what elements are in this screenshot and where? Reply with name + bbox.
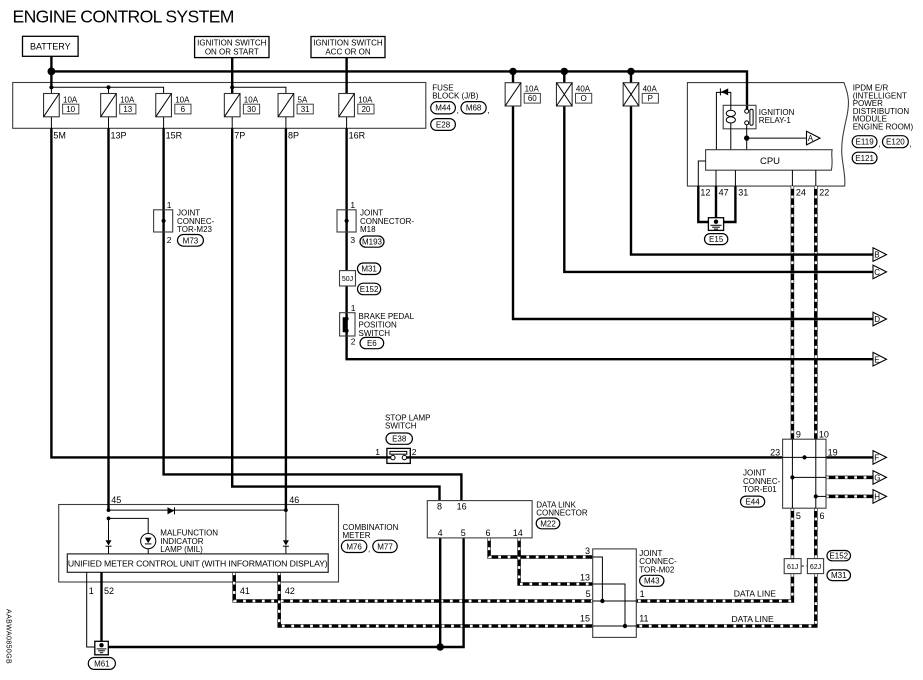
wire meter internal top rail — [109, 509, 286, 511]
svg-text:45: 45 — [111, 495, 121, 505]
wire E01 to arrow H (dashed) — [826, 495, 873, 499]
wire CPU pin 47 — [715, 170, 717, 186]
svg-text:10A: 10A — [175, 95, 190, 104]
svg-text:62J: 62J — [810, 564, 821, 571]
svg-text:M31: M31 — [361, 265, 377, 274]
svg-text:M22: M22 — [540, 519, 556, 528]
junction box 62J — [807, 559, 823, 574]
junction box 61J — [784, 559, 801, 574]
wire 8P column to combination meter pin 46 — [285, 128, 287, 510]
svg-text:F: F — [874, 454, 879, 463]
wire battery feed — [50, 56, 52, 87]
svg-text:UNIFIED METER CONTROL UNIT (WI: UNIFIED METER CONTROL UNIT (WITH INFORMA… — [68, 559, 328, 569]
svg-text:3: 3 — [585, 546, 590, 556]
svg-text:ENGINE CONTROL SYSTEM: ENGINE CONTROL SYSTEM — [13, 6, 234, 26]
wire E01 branch to H — [816, 495, 826, 497]
connector E28 label — [431, 119, 456, 131]
connector M61 label — [88, 658, 115, 670]
svg-text:1: 1 — [350, 200, 355, 210]
svg-text:61J: 61J — [787, 564, 798, 571]
off-page arrow A — [807, 131, 821, 145]
ground E15 — [708, 218, 723, 231]
wire 13P column to combination meter pin 45 — [107, 128, 109, 510]
wire M02 pin 3 to data line 1 — [593, 557, 603, 601]
node relay output junction — [744, 135, 749, 140]
svg-text:CPU: CPU — [760, 156, 780, 167]
wire meter pin 52 — [100, 572, 102, 644]
svg-text:D: D — [874, 315, 880, 324]
svg-text:SWITCH: SWITCH — [359, 329, 391, 338]
svg-text:E15: E15 — [709, 235, 724, 244]
node M02 junctions — [600, 599, 604, 603]
svg-text:10A: 10A — [525, 85, 540, 94]
svg-text:2: 2 — [167, 235, 172, 245]
off-page arrow C — [873, 265, 887, 279]
connector E15 label — [705, 234, 728, 245]
connector M31 label (lower) — [827, 570, 851, 581]
connector M22 label — [536, 518, 560, 529]
connector E6 label — [360, 337, 384, 348]
wire E01 pin 19 to arrow F — [826, 456, 873, 458]
wire 16R column through brake pedal switch to arrow E — [347, 128, 873, 359]
wire 15R column to DLC pin 16 — [164, 128, 462, 500]
connector E152 label (lower) — [827, 551, 851, 561]
svg-text:BATTERY: BATTERY — [30, 42, 71, 52]
fuse 10A #30 — [224, 94, 240, 117]
svg-text:1: 1 — [167, 200, 172, 210]
svg-text:13: 13 — [123, 105, 132, 114]
svg-text:M76: M76 — [346, 542, 362, 551]
svg-text:5A: 5A — [298, 95, 308, 104]
svg-text:H: H — [874, 493, 880, 502]
svg-text:ENGINE ROOM): ENGINE ROOM) — [853, 123, 914, 132]
svg-text:G: G — [874, 474, 880, 483]
fuse block (J/B) outline — [13, 83, 426, 129]
relay contact circles and blade — [745, 109, 749, 113]
svg-text:1: 1 — [640, 589, 645, 599]
off-page arrow B — [873, 248, 887, 262]
svg-text:,: , — [368, 544, 370, 553]
svg-text:A: A — [808, 134, 814, 143]
svg-text:40A: 40A — [643, 85, 658, 94]
wire CPU pin 12 — [698, 161, 705, 186]
wire meter pin 1 — [87, 572, 95, 647]
svg-text:52: 52 — [104, 586, 114, 596]
diode at pin 45 drop — [106, 540, 112, 545]
svg-text:DATA LINE: DATA LINE — [732, 614, 775, 624]
svg-text:M43: M43 — [644, 577, 660, 586]
svg-text:50J: 50J — [342, 276, 353, 283]
wire relay contact bottom to CPU — [746, 125, 748, 150]
ignition switch ON or START box — [195, 37, 269, 58]
wire CAN-H IPDM pin 24 to E01 pin 9 (dashed) — [791, 186, 795, 439]
svg-text:M73: M73 — [183, 236, 199, 245]
svg-text:40A: 40A — [576, 85, 591, 94]
svg-text:1: 1 — [375, 447, 380, 457]
svg-text:ACC OR ON: ACC OR ON — [325, 47, 371, 56]
fusible link 40A P — [623, 83, 639, 106]
svg-text:5: 5 — [461, 528, 466, 538]
svg-text:10: 10 — [819, 430, 829, 440]
data link connector box — [427, 501, 532, 538]
svg-text:METER: METER — [343, 531, 371, 540]
wire meter diode drops — [108, 518, 110, 554]
svg-text:,: , — [457, 106, 459, 115]
svg-text:31: 31 — [738, 188, 748, 198]
wire fusible link O to arrow C — [564, 71, 873, 272]
svg-text:6: 6 — [486, 528, 491, 538]
svg-text:M77: M77 — [377, 542, 393, 551]
wire M02 pin 13 to data line 2 — [593, 584, 625, 626]
wire combination meter pin 41 to M02 pin 5 (dashed) — [234, 572, 593, 601]
wire main battery bus to ignition relay — [51, 71, 747, 109]
svg-text:TOR-M23: TOR-M23 — [177, 225, 213, 234]
wire fuse tails inside block — [50, 117, 52, 129]
wire fuse block internal bus A — [51, 87, 163, 93]
off-page arrow D — [873, 312, 887, 326]
wire M02 data line 2 through — [593, 625, 637, 627]
fusible link 40A O — [556, 83, 572, 106]
connector M76 label — [341, 540, 366, 552]
node battery junction — [48, 68, 56, 76]
wire relay coil stubs — [730, 105, 732, 129]
wire E01 pin 23-19 through — [783, 456, 826, 458]
svg-text:C: C — [874, 268, 880, 277]
joint connector M02 box — [593, 549, 637, 638]
ignition switch ACC or ON box — [311, 37, 385, 58]
svg-text:30: 30 — [247, 105, 256, 114]
diode between pins 45/46 — [168, 507, 175, 514]
connector M43 label — [640, 575, 664, 586]
malfunction indicator lamp (MIL) — [141, 534, 156, 549]
wire fusible link P to arrow B — [631, 71, 873, 254]
svg-text:M44: M44 — [435, 104, 451, 113]
svg-text:E44: E44 — [745, 498, 760, 507]
svg-text:M61: M61 — [94, 659, 110, 668]
wire E01 pin 9-5 through — [791, 439, 793, 508]
svg-text:,: , — [910, 140, 912, 149]
wire ground bus to DLC pins 4/5 — [108, 538, 463, 647]
wire CPU pin 24 stub — [791, 170, 793, 186]
svg-text:16: 16 — [457, 501, 467, 511]
node fusible link P tap — [627, 68, 634, 75]
svg-text:IGNITION SWITCH: IGNITION SWITCH — [197, 38, 267, 47]
wire relay coil bottom to CPU — [730, 129, 732, 150]
svg-text:DATA LINE: DATA LINE — [734, 588, 777, 598]
svg-text:5M: 5M — [53, 131, 66, 141]
connector M73 label — [178, 235, 204, 247]
svg-text:,: , — [487, 106, 489, 115]
svg-text:BLOCK (J/B): BLOCK (J/B) — [432, 92, 479, 101]
svg-text:10: 10 — [66, 105, 75, 114]
connector M31 label (upper) — [358, 263, 381, 275]
svg-text:E28: E28 — [436, 120, 451, 129]
svg-text:5: 5 — [796, 511, 801, 521]
diode at pin 46 drop — [283, 540, 289, 545]
wire CPU pin 31 — [734, 170, 736, 186]
svg-text:RELAY-1: RELAY-1 — [759, 116, 792, 125]
wire fuse 60 to arrow D — [513, 71, 873, 319]
svg-text:41: 41 — [240, 586, 250, 596]
svg-text:E121: E121 — [855, 154, 874, 163]
svg-text:E6: E6 — [367, 339, 377, 348]
ignition relay-1 box — [723, 105, 756, 129]
wire CAN-L IPDM pin 22 to E01 pin 10 (dashed) — [814, 186, 818, 439]
node fuse 60 tap — [509, 68, 516, 75]
svg-text:46: 46 — [289, 495, 299, 505]
wire ignition switch ACC/ON to fuse 20 — [345, 58, 347, 94]
node fuse bus dots — [49, 85, 53, 89]
svg-text:8: 8 — [437, 501, 442, 511]
fuse 10A #60 — [505, 83, 521, 106]
IPDM E/R outline — [687, 83, 848, 187]
svg-text:IGNITION SWITCH: IGNITION SWITCH — [313, 38, 383, 47]
svg-text:AABWA0850GB: AABWA0850GB — [4, 609, 11, 664]
link 61J-62J — [802, 565, 809, 567]
fuse 5A #31 — [278, 94, 294, 117]
svg-text:10A: 10A — [63, 95, 78, 104]
svg-text:M31: M31 — [831, 571, 847, 580]
wire DLC pin 4 — [439, 538, 441, 647]
connector M193 label — [360, 236, 384, 247]
svg-text:14: 14 — [513, 528, 523, 538]
connector M68 label — [461, 102, 486, 114]
wire E01 to arrow G (dashed) — [826, 476, 873, 480]
wire ignition switch ON/START to fuse 30 — [231, 58, 233, 94]
svg-text:15: 15 — [580, 613, 590, 623]
svg-text:23: 23 — [770, 447, 780, 457]
svg-text:5: 5 — [586, 589, 591, 599]
wire E01 pin 6 through 62J to data line 2 (dashed) — [636, 508, 816, 626]
svg-text:,: , — [878, 140, 880, 149]
svg-text:E152: E152 — [360, 285, 379, 294]
svg-text:6: 6 — [820, 511, 825, 521]
svg-text:M18: M18 — [360, 225, 376, 234]
brake pedal position switch — [340, 313, 355, 336]
stop lamp switch — [387, 448, 410, 463]
wire M02 data line 1 through — [593, 600, 637, 602]
joint connector E01 box — [783, 439, 826, 508]
junction box 50J — [340, 271, 356, 286]
diode (relay flyback) — [719, 88, 721, 95]
svg-text:42: 42 — [285, 586, 295, 596]
connector M77 label — [373, 540, 397, 552]
svg-text:E: E — [874, 355, 879, 364]
fuse 10A #10 — [44, 94, 60, 117]
wire E01 pin 10-6 through — [815, 439, 817, 508]
node DLC pin 4 junction — [437, 643, 444, 650]
svg-text:9: 9 — [796, 430, 801, 440]
svg-text:E119: E119 — [856, 138, 875, 147]
svg-text:M68: M68 — [466, 104, 482, 113]
fuse 10A #13 — [101, 94, 117, 117]
off-page arrow H — [873, 490, 887, 504]
wire 7P column to DLC pin 8 — [232, 128, 439, 500]
combination meter outline — [59, 505, 339, 583]
svg-text:3: 3 — [350, 235, 355, 245]
node E01 junctions — [802, 455, 806, 459]
svg-text:22: 22 — [819, 188, 829, 198]
svg-text:4: 4 — [438, 528, 443, 538]
svg-text:15R: 15R — [166, 131, 183, 141]
svg-text:31: 31 — [301, 105, 310, 114]
svg-text:O: O — [580, 94, 586, 103]
wire E01 pin 5 through 61J to data line 1 (dashed) — [636, 508, 792, 601]
svg-text:11: 11 — [639, 613, 648, 623]
svg-text:E120: E120 — [886, 138, 905, 147]
svg-text:E152: E152 — [829, 552, 848, 561]
connector E119 label — [852, 136, 877, 148]
svg-text:60: 60 — [528, 94, 537, 103]
wire E01 branch to G — [792, 476, 826, 478]
svg-text:47: 47 — [719, 188, 729, 198]
battery box — [23, 36, 79, 56]
wire combination meter pin 42 to M02 pin 15 (dashed) — [279, 572, 593, 626]
svg-text:1: 1 — [351, 303, 356, 313]
off-page arrow F — [873, 451, 887, 465]
svg-text:2: 2 — [412, 447, 417, 457]
svg-text:CONNECTOR: CONNECTOR — [536, 509, 588, 518]
svg-text:10A: 10A — [244, 95, 259, 104]
wire CPU pin 22 stub — [815, 170, 817, 186]
relay coil — [726, 110, 735, 116]
svg-text:19: 19 — [828, 447, 838, 457]
svg-text:E38: E38 — [392, 435, 407, 444]
wire meter MIL branch — [109, 518, 149, 533]
svg-text:12: 12 — [700, 188, 710, 198]
svg-text:P: P — [648, 94, 653, 103]
connector E38 label — [386, 433, 412, 444]
svg-text:TOR-M02: TOR-M02 — [639, 565, 675, 574]
ground M61 — [95, 641, 109, 655]
svg-text:20: 20 — [361, 105, 370, 114]
wire DLC pin 6 to M02 pin 3 (dashed) — [489, 538, 593, 557]
svg-text:SWITCH: SWITCH — [385, 422, 417, 431]
connector M44 label — [431, 102, 456, 114]
node fusible link O tap — [561, 68, 568, 75]
svg-text:2: 2 — [351, 337, 356, 347]
wire relay coil flyback loop with diode — [716, 92, 730, 149]
wire 5M column to stop lamp switch — [51, 128, 387, 457]
node meter junctions — [107, 508, 111, 512]
connector E152 label (upper) — [358, 283, 381, 295]
svg-text:TOR-E01: TOR-E01 — [743, 485, 777, 494]
wire fuse block internal bus B — [232, 87, 286, 93]
wire stop lamp switch to E01 pin 23 — [410, 456, 782, 458]
connector E44 label — [741, 496, 765, 507]
fuse 10A #6 — [156, 94, 172, 117]
joint connector M23 — [154, 210, 173, 232]
svg-text:7P: 7P — [234, 131, 245, 141]
svg-text:13P: 13P — [111, 131, 127, 141]
svg-text:B: B — [874, 251, 879, 260]
svg-text:10A: 10A — [120, 95, 135, 104]
svg-text:13: 13 — [580, 573, 590, 583]
unified meter control unit box — [67, 554, 328, 572]
svg-text:M193: M193 — [362, 238, 383, 247]
svg-text:16R: 16R — [349, 131, 366, 141]
svg-text:6: 6 — [181, 105, 186, 114]
off-page arrow E — [873, 352, 887, 366]
wire relay output to arrow A — [747, 137, 807, 139]
joint connector M18 — [337, 210, 356, 232]
connector E120 label — [883, 136, 909, 148]
svg-text:24: 24 — [796, 188, 806, 198]
svg-text:LAMP (MIL): LAMP (MIL) — [160, 545, 203, 554]
wire DLC pin 14 to M02 pin 13 (dashed) — [519, 538, 593, 584]
svg-text:10A: 10A — [358, 95, 373, 104]
svg-text:8P: 8P — [288, 131, 299, 141]
svg-text:ON OR START: ON OR START — [205, 47, 259, 56]
connector E121 label — [852, 152, 877, 164]
svg-text:1: 1 — [89, 586, 94, 596]
fuse 10A #20 — [339, 94, 355, 117]
off-page arrow G — [873, 471, 887, 485]
CPU box — [706, 150, 833, 171]
